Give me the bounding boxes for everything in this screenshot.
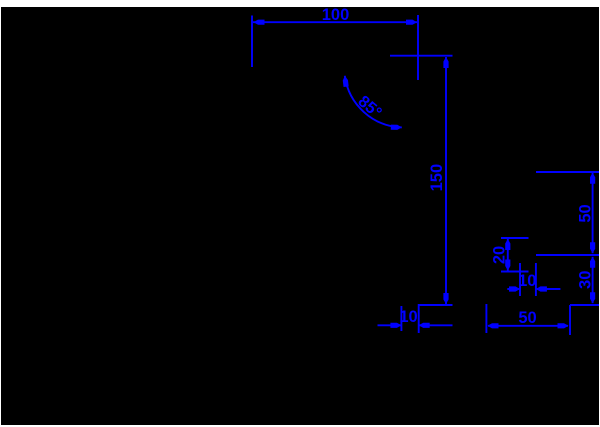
dimension 100: dimension line: [253, 21, 417, 23]
arrowhead 30 top: [590, 257, 595, 268]
dimension 10 (right group): left extension line: [519, 263, 521, 296]
dimension 150: top extension line: [390, 55, 453, 57]
dimension 10 (bottom middle): left tail of dimension line: [378, 324, 402, 326]
arrowhead 50 top-right top: [590, 173, 595, 184]
arrowhead 150 top: [443, 57, 448, 68]
arrowhead 50 top-right bottom: [590, 242, 595, 253]
arrowhead 50 bottom right: [558, 323, 569, 328]
svg-text:50: 50: [577, 204, 595, 222]
dimension 50 (top right): top extension line: [536, 171, 599, 173]
dimension 20: top extension line: [501, 237, 529, 239]
arrowhead arc bottom: [391, 125, 402, 130]
step edge horizontal / 30 bottom extension: [570, 304, 599, 306]
svg-text:10: 10: [399, 308, 417, 326]
arrowhead 20 top: [505, 239, 510, 250]
dimension 150: bottom extension line: [419, 304, 453, 306]
dimension 100: left extension line: [251, 16, 253, 68]
arrowhead 10 right-group right (outside): [536, 286, 547, 291]
arrowhead 100 left: [254, 20, 265, 25]
svg-text:20: 20: [491, 246, 509, 264]
dimension 10 (right group): left tail: [507, 288, 519, 290]
svg-text:30: 30: [577, 271, 595, 289]
arrowhead 150 bottom: [443, 293, 448, 304]
svg-text:10: 10: [518, 272, 536, 290]
svg-text:100: 100: [322, 6, 350, 24]
arrowhead 50 bottom left: [488, 323, 499, 328]
dimension 100: right extension line: [417, 15, 419, 80]
arrowhead 30 bottom: [590, 292, 595, 303]
dimension 50 (top right): dimension line: [592, 173, 594, 253]
dimension 10 (right group): right tail: [536, 288, 560, 290]
arrowhead 10 mid left (outside): [390, 323, 401, 328]
dimension 50 (bottom): left extension line: [485, 304, 487, 333]
angular dimension 85: arc: [345, 76, 402, 128]
dimension 20: bottom extension line: [501, 271, 529, 273]
arrowhead 10 right-group left (outside): [509, 286, 520, 291]
step edge vertical / 50 bottom right extension: [569, 305, 571, 335]
svg-text:50: 50: [518, 309, 536, 327]
dimension 10 (bottom middle): right extension line: [418, 304, 420, 333]
dimension 10 (bottom middle): left extension line: [400, 306, 402, 331]
arrowhead 20 bottom: [505, 260, 510, 271]
arrowhead 100 right: [406, 20, 417, 25]
dimension 50 (bottom): dimension line: [488, 325, 568, 327]
dimension 10 (right group): right extension line: [535, 263, 537, 296]
svg-text:150: 150: [428, 164, 446, 192]
dimension 150: dimension line: [445, 57, 447, 304]
arrowhead arc top: [342, 75, 349, 87]
dimension 20: dimension line: [507, 239, 509, 271]
dimension 30: dimension line: [592, 257, 594, 303]
shared extension line between 50 and 30: [536, 254, 599, 256]
arrowhead 10 mid right (outside): [419, 323, 430, 328]
dimension 10 (bottom middle): right tail of dimension line: [419, 324, 453, 326]
